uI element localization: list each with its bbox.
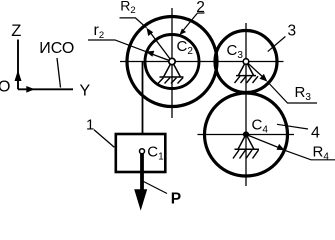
wheel 4 circle xyxy=(205,93,288,176)
leader R3 xyxy=(267,82,317,104)
svg-text:ИСО: ИСО xyxy=(39,40,74,57)
pulley 2 outer circle xyxy=(127,17,217,107)
support pivot at C2 xyxy=(158,58,184,83)
centerline horizontal wheel 4 xyxy=(198,134,295,136)
svg-text:1: 1 xyxy=(86,116,94,133)
svg-text:Z: Z xyxy=(11,22,21,40)
radius arrow R3 xyxy=(246,62,267,82)
svg-text:P: P xyxy=(171,190,181,207)
force P shaft xyxy=(140,151,144,190)
svg-text:O: O xyxy=(0,79,10,96)
leader ISO xyxy=(57,58,61,88)
leader 4 xyxy=(277,124,308,129)
centerline horizontal pulleys 2 and 3 xyxy=(120,61,284,63)
centerline vertical pulley 2 xyxy=(171,8,173,118)
axis Z line xyxy=(17,40,19,90)
svg-text:4: 4 xyxy=(311,124,320,141)
axis Z arrowhead xyxy=(15,70,22,81)
leader r2 xyxy=(88,40,146,52)
leader P xyxy=(144,182,168,194)
force P arrowhead xyxy=(134,189,147,210)
wheel 3 circle xyxy=(215,31,277,93)
leader 1 xyxy=(94,130,114,148)
leader 2 xyxy=(180,13,205,35)
pulley 2 inner circle xyxy=(145,35,199,89)
block 1 rectangle xyxy=(116,134,166,172)
axis Y line xyxy=(18,88,73,90)
support pivot at C4 xyxy=(233,132,259,159)
axis Y arrowhead xyxy=(26,86,35,93)
leader R2 xyxy=(120,18,147,28)
leader R4 xyxy=(285,150,335,160)
svg-text:3: 3 xyxy=(288,23,297,40)
support pivot at C3 xyxy=(235,59,259,83)
radius arrow R4 xyxy=(246,135,285,151)
leader 3 xyxy=(268,37,286,52)
radius arrow r2 xyxy=(146,51,172,62)
rope from pulley 2 to block 1 xyxy=(142,62,144,134)
svg-text:Y: Y xyxy=(80,82,91,99)
radius arrow R2 xyxy=(147,28,173,62)
pin C1 xyxy=(140,149,145,154)
centerline vertical wheels 3 and 4 xyxy=(245,23,247,186)
